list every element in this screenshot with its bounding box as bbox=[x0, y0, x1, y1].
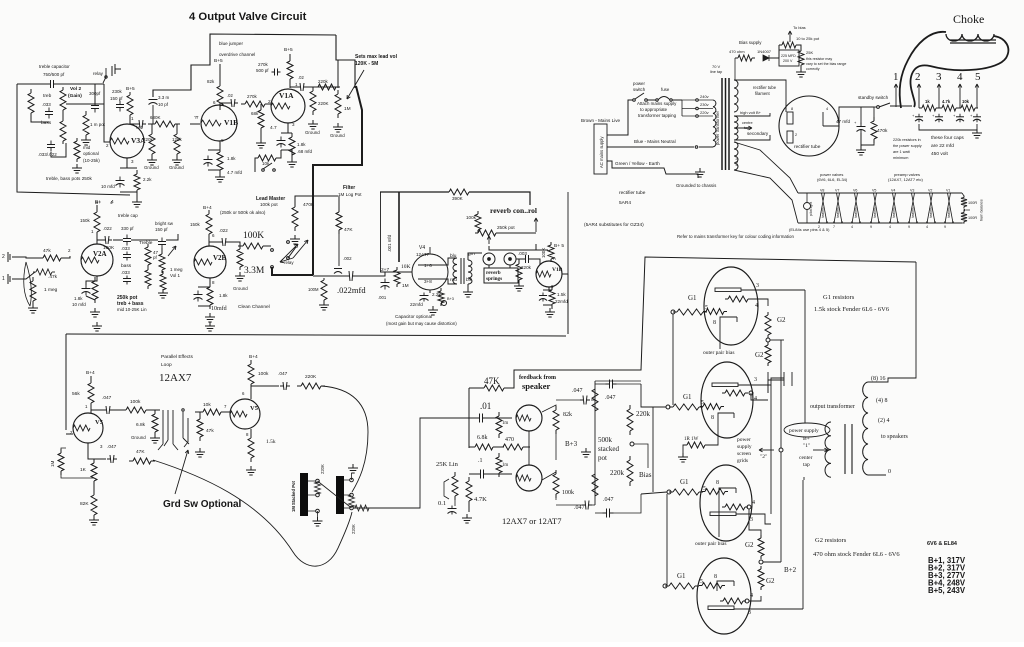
svg-text:7: 7 bbox=[833, 225, 835, 229]
ground 120k v3a bbox=[172, 156, 182, 165]
svg-text:the power supply: the power supply bbox=[893, 144, 922, 148]
power transformer primary bbox=[713, 100, 716, 147]
svg-text:G2: G2 bbox=[777, 316, 786, 324]
wire v1a cathode bbox=[287, 123, 289, 133]
svg-text:optional: optional bbox=[83, 151, 99, 156]
label 56k bbox=[72, 391, 80, 397]
label 150 pf bright bbox=[155, 227, 168, 232]
resistor 100M bbox=[321, 278, 327, 302]
capacitor .1 pi bbox=[477, 470, 488, 479]
label 1.8k v2b bbox=[219, 293, 228, 298]
capacitor 300pf bbox=[91, 102, 99, 113]
arrow node 3 bbox=[937, 84, 941, 108]
label 220k pi2 bbox=[610, 469, 625, 477]
arrow node 1 bbox=[894, 84, 898, 107]
label pin7 v5b bbox=[224, 404, 227, 409]
svg-text:vary to set the bias range: vary to set the bias range bbox=[806, 62, 846, 66]
wire reverb rail right bbox=[469, 192, 530, 205]
vertical text .001 mfd bbox=[387, 234, 392, 252]
svg-text:5AR4: 5AR4 bbox=[619, 200, 631, 206]
svg-text:500k: 500k bbox=[598, 436, 613, 444]
label G2 resistors bbox=[815, 537, 847, 544]
label these four caps bbox=[931, 135, 964, 141]
resistor 1.8k v1b bbox=[217, 148, 223, 174]
wire v1a plate out bbox=[290, 86, 297, 88]
svg-text:1M Log Pot: 1M Log Pot bbox=[338, 192, 362, 197]
label 100K v2a bbox=[103, 245, 115, 251]
wire v3a out bus bbox=[148, 124, 152, 134]
ground 6.8k bbox=[150, 434, 160, 443]
svg-text:47k: 47k bbox=[206, 428, 214, 434]
label power supply ot bbox=[789, 428, 819, 434]
label pot bbox=[598, 454, 607, 462]
label 230k bbox=[112, 89, 123, 94]
svg-text:B+5: B+5 bbox=[126, 86, 135, 92]
label 300pf bbox=[89, 91, 101, 96]
svg-text:B+3: B+3 bbox=[565, 440, 578, 448]
svg-text:270k: 270k bbox=[247, 94, 258, 99]
svg-text:8: 8 bbox=[716, 480, 719, 486]
svg-text:power: power bbox=[737, 437, 751, 443]
label .02 v3a bbox=[136, 125, 144, 130]
ground 1R bbox=[678, 453, 688, 462]
tap junction bbox=[681, 100, 683, 116]
label 680K bbox=[150, 115, 161, 120]
label V2A bbox=[93, 250, 107, 258]
svg-text:220K: 220K bbox=[305, 374, 317, 380]
label 470K lm bbox=[303, 202, 315, 208]
resistor 10k loop bbox=[199, 409, 225, 415]
svg-text:(most gain but may cause disto: (most gain but may cause distortion) bbox=[386, 321, 457, 326]
tube3 screen node bbox=[747, 505, 751, 509]
wire reverb top rail bbox=[380, 191, 449, 193]
label pin6 v1b bbox=[213, 100, 216, 105]
lead channel heavy border bbox=[313, 86, 362, 275]
resistor 1K loop bbox=[91, 459, 97, 485]
svg-text:100R: 100R bbox=[968, 216, 977, 220]
svg-text:1N4007: 1N4007 bbox=[757, 49, 772, 54]
label treble bass pots 250k bbox=[46, 176, 93, 181]
svg-text:G2: G2 bbox=[745, 541, 754, 549]
label feedback from bbox=[519, 375, 556, 381]
label 220v bbox=[700, 110, 709, 115]
label 120K - 5M bbox=[355, 61, 378, 67]
svg-text:treb: treb bbox=[43, 93, 52, 99]
svg-text:4.7k: 4.7k bbox=[942, 99, 951, 104]
label 500k bbox=[598, 436, 613, 444]
svg-text:100k pot: 100k pot bbox=[260, 202, 278, 207]
svg-text:220K: 220K bbox=[351, 524, 356, 534]
heater winding 6.3 bbox=[734, 142, 738, 170]
resistor 47pf bbox=[159, 251, 165, 273]
label V2B bbox=[213, 254, 227, 262]
label optional2 bbox=[83, 151, 99, 156]
svg-text:B+5: B+5 bbox=[284, 47, 293, 53]
right plate bus bbox=[804, 290, 806, 420]
label 220K v bbox=[318, 101, 329, 106]
svg-text:G2 resistors: G2 resistors bbox=[815, 537, 847, 544]
label 150k v2a bbox=[80, 218, 91, 223]
tube3 pin8 bbox=[716, 480, 719, 486]
label 5AR4 bbox=[619, 200, 631, 206]
ground v4 bbox=[428, 306, 438, 315]
label brown mains live bbox=[581, 118, 621, 123]
label .047 loop1 bbox=[102, 395, 112, 401]
wire g2-3 wiring bbox=[749, 509, 761, 538]
svg-text:V1B: V1B bbox=[224, 118, 238, 127]
label preamp valves 2 bbox=[888, 177, 924, 182]
svg-text:/.02: /.02 bbox=[136, 125, 144, 130]
tube2 plate bar bbox=[712, 383, 738, 387]
svg-text:5: 5 bbox=[703, 486, 706, 492]
label grd sw optional bbox=[163, 499, 242, 510]
wire pot1 bottom bbox=[317, 511, 319, 519]
label 82K loop bbox=[80, 501, 89, 507]
label pin7 v1b bbox=[196, 115, 199, 120]
svg-text:(5AR4 substitutes for GZ34): (5AR4 substitutes for GZ34) bbox=[584, 222, 644, 228]
label 10mfd v2b bbox=[211, 305, 227, 312]
label treb bbox=[43, 93, 52, 99]
ground v2a cath bbox=[90, 308, 100, 317]
capacitor ps3 bbox=[953, 113, 964, 122]
wire v4 cath bbox=[429, 290, 431, 293]
label rectifier tube bbox=[794, 144, 821, 150]
svg-text:heaters: heaters bbox=[873, 207, 877, 218]
ground vol2 pot bbox=[81, 136, 91, 145]
label 220k rev2 bbox=[521, 265, 532, 270]
svg-text:0.1: 0.1 bbox=[438, 500, 446, 507]
svg-text:blue jumper: blue jumper bbox=[219, 41, 243, 46]
svg-text:V5: V5 bbox=[95, 419, 104, 426]
reverb springs box bbox=[484, 268, 518, 283]
potentiometer bass 250k bbox=[60, 118, 66, 144]
label 6V6 EL84 bbox=[927, 541, 958, 547]
grid bus tube1 to tube2 bbox=[672, 314, 674, 405]
svg-text:B+5: B+5 bbox=[214, 58, 223, 64]
wire v4 grid bbox=[385, 272, 412, 275]
label B+5 v1b bbox=[214, 58, 223, 64]
label 10 pf bbox=[158, 102, 169, 107]
wire pot diagonal bbox=[318, 481, 352, 508]
resistor 10k ps bbox=[958, 105, 978, 111]
svg-text:Vol 2: Vol 2 bbox=[70, 86, 81, 92]
wire cath join v3a bbox=[120, 168, 137, 198]
resistor v2b cath bbox=[207, 283, 213, 309]
input jack 2 bbox=[2, 252, 16, 262]
label V1A bbox=[279, 91, 294, 100]
svg-text:4.7 mfd: 4.7 mfd bbox=[227, 170, 243, 175]
label 100M bbox=[308, 287, 319, 292]
label 47 pf bbox=[153, 250, 159, 260]
svg-text:V1B: V1B bbox=[552, 267, 563, 273]
label reverb control bbox=[490, 206, 537, 215]
heater chain top rail bbox=[798, 192, 962, 194]
vertical text 220K pot1 bbox=[320, 464, 325, 474]
svg-text:3.3M: 3.3M bbox=[244, 266, 265, 276]
svg-text:25K: 25K bbox=[806, 50, 813, 55]
wire hv top to rect bbox=[734, 113, 770, 116]
svg-text:high volt B+: high volt B+ bbox=[740, 110, 762, 115]
capacitor .01 pi bbox=[476, 414, 487, 423]
label AC mains supply box bbox=[594, 124, 607, 174]
hum balance resistor 1 bbox=[961, 196, 967, 209]
label 470 ohm bbox=[729, 49, 745, 54]
svg-text:4: 4 bbox=[926, 225, 928, 229]
svg-text:V2B: V2B bbox=[213, 254, 227, 262]
resistor 100k rev bbox=[475, 211, 481, 233]
potentiometer treble v2a bbox=[145, 244, 151, 268]
grd switch contacts bbox=[158, 410, 178, 450]
resistor 120k v3a bbox=[174, 130, 180, 158]
svg-text:1.8k: 1.8k bbox=[219, 293, 228, 298]
svg-text:grids: grids bbox=[737, 458, 748, 464]
resistor 47K loop3 bbox=[129, 458, 155, 464]
svg-text:pilot light: pilot light bbox=[809, 202, 813, 216]
label Choke bbox=[953, 12, 984, 26]
label Ground v3a1 bbox=[144, 165, 159, 170]
svg-text:1M: 1M bbox=[402, 283, 409, 289]
resistor 1R 1W bbox=[684, 442, 708, 448]
resistor G2 tube1 bbox=[765, 312, 771, 338]
svg-text:(250k or 500k ok also): (250k or 500k ok also) bbox=[220, 210, 266, 215]
capacitor bright bbox=[158, 238, 166, 249]
tube1 cathode wire bbox=[719, 327, 721, 349]
label .047 loop3 bbox=[107, 444, 117, 450]
label Ground v2b bbox=[233, 286, 248, 291]
svg-text:10k: 10k bbox=[203, 402, 211, 408]
svg-text:B+ 5: B+ 5 bbox=[554, 243, 564, 249]
label red bbox=[450, 277, 457, 283]
svg-text:47K: 47K bbox=[484, 376, 500, 386]
wire 680k to v1b bbox=[190, 123, 200, 125]
tube2 pin5 bbox=[701, 400, 704, 406]
resistor 1.5k loop bbox=[248, 434, 254, 462]
resistor v2a cath bbox=[92, 277, 98, 303]
label B+2 bbox=[784, 566, 797, 574]
resistor 390K bbox=[445, 189, 473, 195]
label 2.2k v3a bbox=[143, 177, 152, 182]
circle B pin bbox=[442, 297, 454, 306]
svg-text:.047: .047 bbox=[102, 395, 112, 401]
label 10 mfd v3a bbox=[101, 184, 115, 189]
label capacitor optional bbox=[395, 314, 432, 319]
label Filter bbox=[343, 185, 355, 191]
svg-text:bass: bass bbox=[121, 263, 132, 269]
label 120k v3a bbox=[172, 137, 183, 142]
svg-text:150k: 150k bbox=[190, 222, 201, 227]
label B+5 243V bbox=[928, 586, 966, 595]
label 1M log pot bbox=[338, 192, 362, 197]
svg-text:1K: 1K bbox=[80, 467, 87, 473]
label attach mains 3 bbox=[638, 113, 677, 118]
svg-text:B+: B+ bbox=[95, 199, 101, 205]
wire lm net bbox=[295, 196, 338, 207]
svg-text:9: 9 bbox=[870, 225, 872, 229]
tube1 plate wire bbox=[741, 289, 805, 291]
label 220K loop bbox=[305, 374, 317, 380]
capacitor .047 pi out2 bbox=[606, 380, 617, 389]
svg-text:V8: V8 bbox=[820, 189, 824, 193]
wire 1r to gnd bbox=[683, 445, 687, 455]
label B+4 248V bbox=[928, 579, 966, 588]
label 1 m pot bbox=[90, 122, 106, 127]
svg-text:10k: 10k bbox=[962, 99, 970, 104]
label 70V line tap bbox=[710, 64, 722, 74]
label 250k or 500k bbox=[220, 210, 266, 215]
wire 1m net bbox=[61, 448, 94, 478]
label 10k loop bbox=[203, 402, 211, 408]
label G1 tube2 bbox=[683, 393, 692, 401]
label B+3 277V bbox=[928, 571, 966, 580]
capacitor .047 loop3 bbox=[107, 455, 117, 463]
label 10k ps bbox=[962, 99, 970, 104]
wire g2 node right bbox=[770, 339, 784, 341]
label .033 v2a2 bbox=[121, 270, 130, 275]
resistor 68k bbox=[258, 106, 264, 132]
switch standby bbox=[877, 103, 890, 108]
resistor 270k v1a plate bbox=[287, 58, 293, 82]
label speaker bbox=[522, 381, 551, 391]
svg-text:5: 5 bbox=[700, 579, 703, 585]
label attach mains 2 bbox=[640, 107, 668, 112]
svg-text:150 pf: 150 pf bbox=[155, 227, 168, 232]
svg-text:bright sw: bright sw bbox=[155, 221, 174, 226]
svg-text:rectifier tube: rectifier tube bbox=[619, 190, 646, 196]
power transformer core bbox=[722, 78, 729, 170]
label A node bbox=[553, 256, 556, 261]
svg-text:(4) 8: (4) 8 bbox=[876, 397, 888, 404]
resistor 3.3M bbox=[237, 246, 243, 270]
grd switch 2 bbox=[182, 409, 189, 447]
capacitor v1b cath bbox=[204, 156, 213, 167]
svg-text:treble cap: treble cap bbox=[118, 213, 138, 218]
label .1 pi bbox=[478, 458, 483, 464]
tube3 grid terminal bbox=[667, 490, 671, 494]
svg-text:heaters: heaters bbox=[836, 207, 840, 218]
svg-text:1 meg: 1 meg bbox=[170, 267, 183, 272]
wire bias net bbox=[779, 45, 801, 58]
wire v1b cath bbox=[208, 141, 220, 174]
screen connection jumble bbox=[751, 372, 792, 400]
resistor 4.7k ps bbox=[939, 105, 959, 111]
label EL84 pins bbox=[789, 227, 830, 232]
label .022 v2b bbox=[219, 228, 228, 233]
capacitor .02 v1a out bbox=[297, 83, 307, 91]
ot primary coil bbox=[825, 422, 831, 477]
input jack 1 bbox=[2, 274, 16, 284]
label 2+7 bbox=[381, 267, 389, 273]
svg-text:100K: 100K bbox=[541, 248, 546, 258]
ground v1b rev bbox=[545, 308, 555, 317]
wire v5b plate bbox=[250, 360, 252, 399]
potentiometer mid optional bbox=[74, 138, 80, 162]
arrow rev pot wiper bbox=[487, 236, 491, 244]
svg-text:reverb con..rol: reverb con..rol bbox=[490, 206, 537, 215]
label 25K Lin bbox=[436, 461, 459, 468]
svg-text:56k: 56k bbox=[72, 391, 80, 397]
svg-text:4: 4 bbox=[851, 225, 853, 229]
svg-text:10 mfd: 10 mfd bbox=[72, 302, 86, 307]
resistor 4.7K pi bbox=[466, 477, 472, 505]
svg-text:supply: supply bbox=[737, 444, 752, 450]
label are 22 mfd bbox=[931, 143, 954, 149]
svg-text:.022: .022 bbox=[103, 226, 112, 231]
label 5AR4 substitutes bbox=[584, 222, 644, 228]
svg-text:1 m pot: 1 m pot bbox=[90, 122, 106, 127]
wire v1b rev cath bbox=[543, 287, 552, 309]
resistor 47k loop bbox=[197, 415, 203, 441]
label pin2 v3a bbox=[106, 143, 109, 148]
wire mains neutral bbox=[607, 146, 713, 149]
label 1N4007 bbox=[757, 49, 772, 54]
label G1 resistors bbox=[823, 294, 855, 301]
svg-text:230v: 230v bbox=[700, 102, 709, 107]
tube1 pin4 bbox=[755, 303, 758, 309]
label node2 v2a bbox=[68, 248, 71, 253]
svg-text:standby switch: standby switch bbox=[858, 95, 889, 100]
label reverb springs bbox=[486, 270, 502, 282]
label pin1 v2a bbox=[91, 229, 94, 234]
svg-text:relay: relay bbox=[93, 71, 104, 76]
svg-text:4.7K: 4.7K bbox=[474, 496, 487, 503]
label 10k sw bbox=[262, 161, 270, 166]
label treb bass bbox=[117, 301, 144, 307]
label G1 tube1 bbox=[688, 294, 697, 302]
svg-text:70 V: 70 V bbox=[712, 64, 721, 69]
capacitor .022 v2a bbox=[102, 236, 112, 244]
label pin8 v5b bbox=[246, 432, 249, 437]
label 240v bbox=[700, 94, 709, 99]
switch lead master bbox=[287, 241, 296, 260]
potentiometer 1m pot bbox=[83, 111, 89, 139]
wire grid v3a in bbox=[104, 104, 110, 142]
svg-text:G2: G2 bbox=[766, 577, 775, 585]
label 6.8k pi bbox=[477, 435, 488, 441]
label mid lin bbox=[117, 307, 147, 312]
label treble cap note bbox=[118, 213, 138, 218]
label blue mains neutral bbox=[634, 139, 676, 144]
label 68k bbox=[251, 111, 259, 116]
label .047 pi out1 bbox=[572, 388, 583, 394]
choke loop wire bbox=[900, 32, 946, 108]
wire v1a plate top bbox=[289, 54, 291, 88]
svg-text:3: 3 bbox=[936, 71, 942, 83]
label V5B bbox=[250, 405, 259, 412]
label 47K pi bbox=[484, 376, 500, 386]
wire sw box bbox=[255, 150, 281, 172]
label secondary bbox=[747, 131, 769, 136]
capacitor .002 bbox=[334, 269, 342, 274]
resistor 82k pi bbox=[553, 406, 559, 434]
svg-text:to speakers: to speakers bbox=[881, 434, 908, 440]
wire pi mid bbox=[469, 447, 530, 474]
svg-text:5: 5 bbox=[975, 71, 981, 83]
svg-text:2: 2 bbox=[2, 254, 5, 260]
wire rev pot net bbox=[478, 230, 536, 250]
heater chain valves V8-V1 bbox=[818, 189, 954, 224]
label 3.3M big bbox=[244, 266, 265, 276]
svg-text:grn: grn bbox=[468, 251, 475, 257]
ground 220k rev2 bbox=[514, 282, 524, 291]
svg-text:680K: 680K bbox=[150, 115, 161, 120]
wire 3.3m cap down bbox=[152, 105, 154, 124]
tube V4 12AT7 bbox=[412, 247, 448, 290]
potentiometer treble 250k bbox=[60, 87, 66, 113]
capacitor .047 loop1 bbox=[103, 406, 113, 414]
ground input bbox=[28, 304, 38, 313]
bus riser to reverb stage bbox=[567, 274, 569, 334]
arrow bright bbox=[168, 246, 176, 256]
